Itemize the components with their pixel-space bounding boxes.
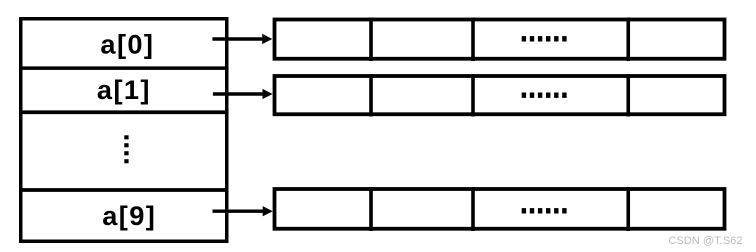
vertical ellipsis dots in left table: [124, 135, 128, 163]
svg-text:CSDN @T.S62: CSDN @T.S62: [668, 235, 742, 247]
row array 0 cell divider 2: [471, 18, 475, 62]
row array 1 cell divider 2: [471, 74, 475, 117]
row array 0 cell divider 3: [626, 18, 630, 62]
arrow from a[1] to row array 1: [213, 89, 273, 99]
row array 0 cell divider 1: [369, 18, 373, 62]
row divider between a[0] and a[1]: [19, 66, 229, 70]
arrow from a[9] to row array 9: [213, 206, 273, 216]
row array 1 (middle right table) outer border: [275, 76, 725, 114]
row array 0 (top right table) outer border: [275, 20, 725, 59]
row array 9 cell divider 2: [471, 187, 475, 231]
row divider between a[1] and ellipsis row: [19, 110, 229, 114]
svg-text:a[0]: a[0]: [100, 29, 154, 60]
arrow from a[0] to row array 0: [212, 34, 272, 44]
horizontal ellipsis dots in row array 9: [522, 208, 567, 213]
row array 1 cell divider 3: [626, 74, 630, 117]
svg-text:a[1]: a[1]: [97, 74, 151, 105]
horizontal ellipsis dots in row array 1: [522, 93, 567, 98]
row array 9 cell divider 1: [369, 187, 373, 231]
row array 9 cell divider 3: [626, 187, 630, 231]
row array 9 (bottom right table) outer border: [275, 189, 725, 229]
row array 1 cell divider 1: [369, 74, 373, 117]
pointer array table (left) outer border: [21, 19, 227, 242]
row divider between ellipsis row and a[9]: [19, 188, 229, 192]
svg-text:a[9]: a[9]: [102, 200, 156, 231]
horizontal ellipsis dots in row array 0: [522, 36, 567, 41]
